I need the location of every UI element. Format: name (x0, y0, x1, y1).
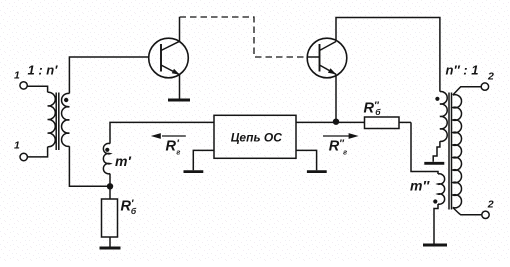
ground (Q1 emitter) (168, 99, 190, 102)
transformer Tr1 primary winding (1) (48, 92, 56, 147)
transformer Tr2 feedback winding (440, 92, 447, 142)
block U1 (Цепь ОС) (214, 115, 296, 158)
wire: OS box left leg (193, 150, 214, 170)
svg-text:R″б: R″б (364, 100, 382, 117)
wire: Tr2 secondary top lead (453, 87, 481, 95)
svg-text:1: 1 (14, 140, 20, 152)
svg-text:1: 1 (14, 70, 20, 82)
wire: OS box right to node B (296, 121, 336, 123)
terminal 1 (top-left input) (20, 82, 48, 93)
arrow R'г (pointing left) (151, 133, 186, 139)
inductor m' (coupling coil) (103, 143, 110, 173)
wire: m' bottom to node A (109, 174, 111, 187)
wire: dashed link Q1 collector to Q2 base (180, 17, 307, 57)
inductor m'' (coupling coil) (438, 174, 445, 204)
transistor Q1 (149, 38, 189, 78)
transformer Tr1 core (56, 93, 59, 151)
terminal 2 (bottom-right output) (482, 211, 489, 218)
terminal 1 (bottom-left input) (20, 147, 48, 161)
svg-text:n″ : 1: n″ : 1 (446, 63, 479, 78)
transformer Tr2 core (449, 93, 452, 210)
polarity dot m'' (433, 199, 437, 203)
ground (R'б) (100, 247, 121, 250)
svg-text:2: 2 (487, 70, 494, 82)
transformer Tr1 secondary winding (n') (62, 93, 70, 146)
arrow R''г (pointing right) (323, 133, 359, 139)
terminal 2 (top-right output) (481, 83, 488, 90)
wire: Q1 collector (179, 17, 181, 41)
transistor Q2 (307, 38, 347, 78)
wire: feedback winding step to ground (433, 141, 440, 162)
ground (feedback winding) (424, 162, 444, 165)
svg-text:Цепь ОС: Цепь ОС (231, 130, 283, 144)
wire: node A to OS box left (110, 122, 214, 143)
wire: R''б to m'' (411, 122, 438, 174)
wire: Tr2 secondary bottom lead (453, 208, 482, 215)
wire: m'' to ground (434, 204, 438, 244)
ground (OS box right) (307, 170, 327, 173)
polarity dot Tr2 feedback winding (435, 97, 439, 101)
wire: Tr1 secondary top to Q1 base (69, 57, 148, 94)
ground (m'') (423, 244, 447, 247)
node B (junction dot) (333, 119, 339, 125)
svg-text:2: 2 (487, 198, 494, 210)
polarity dot Tr1 secondary (64, 98, 68, 102)
wire: Q2 collector to Tr2 (336, 18, 440, 92)
wire: OS box right leg (296, 150, 317, 170)
svg-text:m′: m′ (115, 153, 131, 169)
resistor R''б (336, 117, 411, 129)
wire: Q1 emitter to ground (179, 75, 181, 99)
wire: Tr1 secondary bottom to node A (69, 146, 107, 186)
polarity dot m' (105, 148, 109, 152)
svg-text:R′г: R′г (166, 139, 181, 157)
transformer Tr2 secondary winding (453, 95, 462, 208)
resistor R'б (102, 186, 118, 246)
svg-text:1 : n′: 1 : n′ (28, 63, 59, 78)
node A (junction dot) (107, 183, 113, 189)
svg-text:m″: m″ (410, 178, 430, 194)
ground (OS box left) (184, 170, 204, 173)
wire: Q2 emitter down (335, 74, 337, 121)
